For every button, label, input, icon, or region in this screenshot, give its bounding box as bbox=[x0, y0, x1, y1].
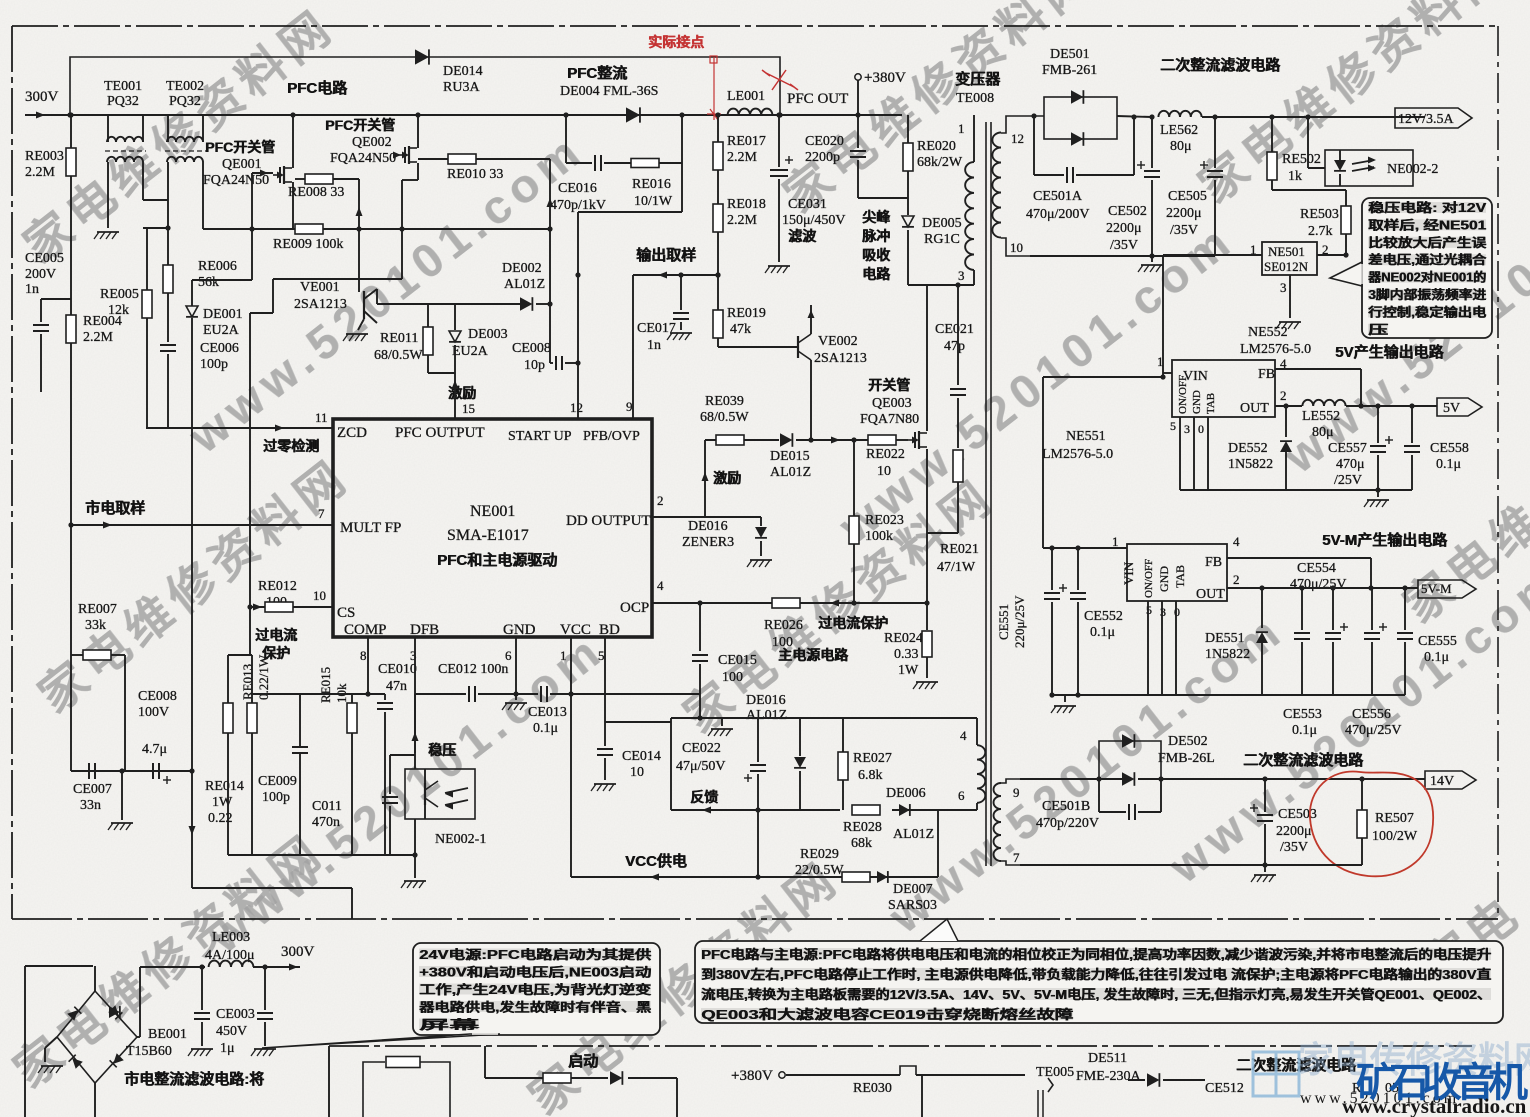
svg-text:470μ/25V: 470μ/25V bbox=[1290, 577, 1347, 592]
svg-text:工作,产生24V电压,为背光灯逆变: 工作,产生24V电压,为背光灯逆变 bbox=[420, 982, 653, 997]
svg-text:CE014: CE014 bbox=[622, 749, 661, 764]
svg-text:RE030: RE030 bbox=[853, 1081, 892, 1096]
svg-text:TE001: TE001 bbox=[104, 79, 142, 94]
svg-text:15: 15 bbox=[462, 401, 475, 416]
svg-text:PFC OUTPUT: PFC OUTPUT bbox=[395, 425, 485, 441]
note PFC box bbox=[695, 941, 1503, 1023]
wire HV rail to transformer bbox=[858, 114, 902, 116]
ic NE552 LM2576 box bbox=[1172, 360, 1275, 417]
svg-text:LE562: LE562 bbox=[1160, 123, 1198, 138]
svg-text:市电取样: 市电取样 bbox=[86, 499, 146, 517]
svg-text:33k: 33k bbox=[85, 618, 106, 633]
svg-text:DE005: DE005 bbox=[922, 216, 962, 231]
wire feedback bottom bbox=[671, 809, 840, 811]
svg-text:NE501: NE501 bbox=[1268, 244, 1305, 259]
wire 5V-M out bbox=[1227, 587, 1418, 589]
wire QE002 drain column bbox=[549, 159, 551, 363]
svg-text:CE022: CE022 bbox=[682, 741, 721, 756]
svg-text:CE554: CE554 bbox=[1297, 561, 1336, 576]
svg-text:4.7μ: 4.7μ bbox=[142, 742, 167, 757]
svg-text:DE003: DE003 bbox=[468, 327, 508, 342]
svg-text:CE020: CE020 bbox=[805, 134, 844, 149]
svg-text:220μ/25V: 220μ/25V bbox=[1012, 595, 1027, 648]
svg-text:RE017: RE017 bbox=[727, 134, 766, 149]
svg-text:FMB-26L: FMB-26L bbox=[1158, 751, 1215, 766]
svg-text:RE503: RE503 bbox=[1300, 207, 1339, 222]
wire snubber mid bbox=[858, 197, 908, 199]
svg-text:LE552: LE552 bbox=[1302, 409, 1340, 424]
output 5V-M arrow bbox=[1418, 580, 1476, 598]
transformer TE005 symbol bbox=[1048, 1078, 1053, 1092]
svg-text:CE502: CE502 bbox=[1108, 204, 1147, 219]
svg-text:DE014: DE014 bbox=[443, 64, 483, 79]
svg-text:RE022: RE022 bbox=[866, 447, 905, 462]
svg-text:DE004 FML-36S: DE004 FML-36S bbox=[560, 84, 658, 99]
svg-text:SARS03: SARS03 bbox=[888, 898, 937, 913]
svg-text:CE005: CE005 bbox=[25, 251, 64, 266]
svg-text:PFC和主电源驱动: PFC和主电源驱动 bbox=[438, 551, 558, 569]
wire pin12 run bbox=[578, 211, 682, 213]
svg-text:NE002-2: NE002-2 bbox=[1387, 162, 1438, 177]
svg-text:稳压电路: 对12V: 稳压电路: 对12V bbox=[1369, 200, 1488, 215]
svg-text:68/0.5W: 68/0.5W bbox=[700, 410, 749, 425]
svg-text:0: 0 bbox=[1198, 422, 1204, 436]
wire VCC supply run bbox=[191, 318, 193, 888]
svg-text:GND: GND bbox=[1157, 566, 1171, 592]
svg-text:/35V: /35V bbox=[1110, 238, 1138, 253]
svg-text:开关管: 开关管 bbox=[869, 377, 911, 393]
svg-text:RE019: RE019 bbox=[727, 306, 766, 321]
svg-text:TAB: TAB bbox=[1205, 393, 1217, 414]
svg-text:QE003和大滤波电容CE019击穿烧断熔丝故障: QE003和大滤波电容CE019击穿烧断熔丝故障 bbox=[702, 1007, 1074, 1022]
svg-text:RE010 33: RE010 33 bbox=[447, 167, 503, 182]
svg-text:启动: 启动 bbox=[569, 1052, 599, 1070]
svg-text:1μ: 1μ bbox=[220, 1041, 235, 1056]
svg-text:AL01Z: AL01Z bbox=[770, 465, 811, 480]
svg-text:100V: 100V bbox=[138, 705, 169, 720]
svg-text:9: 9 bbox=[626, 399, 633, 414]
svg-text:屏幕: 屏幕 bbox=[417, 1017, 481, 1032]
diode DE502a bbox=[1122, 734, 1134, 748]
svg-text:到380V左右,PFC电路停止工作时, 主电源供电降低,带负: 到380V左右,PFC电路停止工作时, 主电源供电降低,带负载能力降低,往往引发… bbox=[702, 967, 1492, 982]
svg-text:1: 1 bbox=[958, 121, 965, 136]
svg-text:8: 8 bbox=[360, 648, 367, 663]
svg-text:80μ: 80μ bbox=[1312, 425, 1334, 440]
svg-text:CE556: CE556 bbox=[1352, 707, 1391, 722]
svg-text:www.crystalradio.cn: www.crystalradio.cn bbox=[1342, 1094, 1527, 1117]
svg-text:DE016: DE016 bbox=[688, 519, 728, 534]
svg-text:300V: 300V bbox=[281, 944, 315, 960]
ground CE014 bbox=[594, 783, 616, 785]
svg-text:DE501: DE501 bbox=[1050, 47, 1090, 62]
svg-text:RE018: RE018 bbox=[727, 197, 766, 212]
svg-text:市电整流滤波电路:将: 市电整流滤波电路:将 bbox=[125, 1070, 265, 1088]
svg-text:47p: 47p bbox=[944, 339, 965, 354]
svg-text:SMA-E1017: SMA-E1017 bbox=[447, 527, 529, 544]
svg-text:5V: 5V bbox=[1443, 401, 1460, 416]
svg-text:12V/3.5A: 12V/3.5A bbox=[1398, 112, 1455, 127]
svg-text:脉冲: 脉冲 bbox=[862, 228, 891, 244]
wire RE502 to RE503 bbox=[1272, 189, 1346, 191]
svg-text:LM2576-5.0: LM2576-5.0 bbox=[1240, 342, 1311, 357]
svg-text:CE007: CE007 bbox=[73, 782, 112, 797]
svg-text:CE006: CE006 bbox=[200, 341, 239, 356]
svg-text:47/1W: 47/1W bbox=[937, 560, 976, 575]
capacitor CE003b bbox=[264, 967, 266, 1010]
svg-text:1: 1 bbox=[1112, 534, 1119, 549]
wire drive to pin15 bbox=[454, 373, 456, 375]
svg-text:470n: 470n bbox=[312, 815, 340, 830]
svg-text:47k: 47k bbox=[730, 322, 751, 337]
svg-text:0.1μ: 0.1μ bbox=[1292, 723, 1317, 738]
svg-text:ON/OFF: ON/OFF bbox=[1143, 559, 1155, 598]
wire comp bottom rail bbox=[228, 854, 415, 856]
capacitor CE553a bbox=[1301, 588, 1303, 630]
svg-text:DE002: DE002 bbox=[502, 261, 542, 276]
wire NE501 pin1 to regulators bbox=[1163, 254, 1262, 256]
svg-text:LE001: LE001 bbox=[727, 89, 765, 104]
svg-text:RE005: RE005 bbox=[100, 287, 139, 302]
svg-text:器NE002对NE001的: 器NE002对NE001的 bbox=[1368, 270, 1487, 285]
svg-text:CE009: CE009 bbox=[258, 774, 297, 789]
svg-text:470μ/25V: 470μ/25V bbox=[1345, 723, 1402, 738]
svg-text:TAB: TAB bbox=[1173, 565, 1187, 588]
svg-text:实际接点: 实际接点 bbox=[649, 34, 705, 50]
bridge rectifier BE001 bbox=[57, 991, 137, 1083]
svg-text:RE024: RE024 bbox=[884, 631, 923, 646]
wire VIN feed 5V-M bbox=[1043, 376, 1163, 378]
svg-text:5V-M产生输出电路: 5V-M产生输出电路 bbox=[1323, 531, 1449, 549]
svg-text:56k: 56k bbox=[198, 275, 219, 290]
svg-text:二次整流滤波电路: 二次整流滤波电路 bbox=[1161, 56, 1282, 74]
svg-text:反馈: 反馈 bbox=[691, 789, 719, 805]
svg-text:1: 1 bbox=[560, 648, 567, 663]
svg-text:SE012N: SE012N bbox=[1264, 259, 1309, 274]
svg-text:470μ/200V: 470μ/200V bbox=[1026, 207, 1090, 222]
svg-text:CE016: CE016 bbox=[558, 181, 597, 196]
svg-text:6: 6 bbox=[958, 788, 965, 803]
svg-text:CE008: CE008 bbox=[138, 689, 177, 704]
svg-text:3: 3 bbox=[1280, 280, 1287, 295]
ic NE553 LM2576 box 5V-M bbox=[1127, 544, 1227, 601]
note 24V box bbox=[413, 943, 660, 1035]
svg-text:PQ32: PQ32 bbox=[169, 94, 201, 109]
svg-text:CE512: CE512 bbox=[1205, 1081, 1244, 1096]
logo watermark book bbox=[1253, 1052, 1299, 1096]
transformer feedback winding bbox=[976, 718, 978, 745]
svg-text:10: 10 bbox=[630, 765, 644, 780]
svg-text:RE021: RE021 bbox=[940, 542, 979, 557]
svg-text:激励: 激励 bbox=[714, 470, 742, 486]
wire NE552 FB loop bbox=[1275, 368, 1361, 370]
wire RE008 column to VE001 bbox=[358, 179, 360, 292]
svg-text:器电路供电,发生故障时有伴音、黑: 器电路供电,发生故障时有伴音、黑 bbox=[418, 1000, 652, 1015]
svg-text:47n: 47n bbox=[386, 679, 407, 694]
svg-text:1W: 1W bbox=[898, 663, 919, 678]
ground VE001 bbox=[358, 319, 364, 330]
svg-text:DE015: DE015 bbox=[770, 449, 810, 464]
svg-text:吸收: 吸收 bbox=[863, 247, 892, 263]
diode DE511 bbox=[1128, 1079, 1145, 1081]
svg-text:FMB-261: FMB-261 bbox=[1042, 63, 1097, 78]
svg-text:RE014: RE014 bbox=[205, 779, 244, 794]
svg-text:RE507: RE507 bbox=[1375, 811, 1414, 826]
wire top loop to DE014 bbox=[70, 57, 780, 115]
resistor startup bbox=[543, 1073, 571, 1083]
svg-text:200V: 200V bbox=[25, 267, 56, 282]
svg-text:RE020: RE020 bbox=[917, 139, 956, 154]
svg-text:10k: 10k bbox=[334, 683, 349, 703]
bridge diodes bbox=[764, 266, 766, 268]
red cross mark bbox=[766, 73, 794, 87]
svg-text:10: 10 bbox=[313, 588, 326, 603]
svg-text:CE551: CE551 bbox=[996, 604, 1011, 640]
svg-text:PQ32: PQ32 bbox=[107, 94, 139, 109]
ground bridge bbox=[45, 1037, 57, 1048]
transformer TE008 secondary winding 12-10 bbox=[992, 133, 1001, 238]
wire startup row bbox=[484, 1046, 486, 1078]
svg-text:RE007: RE007 bbox=[78, 602, 117, 617]
wire snubber bottom bbox=[908, 284, 974, 286]
svg-text:2.7k: 2.7k bbox=[1308, 224, 1333, 239]
svg-text:9: 9 bbox=[1013, 785, 1020, 800]
svg-text:CE558: CE558 bbox=[1430, 441, 1469, 456]
ground 12V rail bbox=[1151, 255, 1153, 262]
red circle annotation RE507 bbox=[1310, 772, 1433, 877]
output 5V arrow bbox=[1437, 398, 1482, 416]
wire bottom verticals bbox=[921, 1075, 923, 1117]
svg-text:100p: 100p bbox=[200, 357, 228, 372]
svg-text:/25V: /25V bbox=[1334, 473, 1362, 488]
svg-text:470p/1kV: 470p/1kV bbox=[550, 198, 606, 213]
svg-text:12: 12 bbox=[1011, 131, 1024, 146]
svg-text:3: 3 bbox=[1184, 422, 1190, 436]
svg-text:CE503: CE503 bbox=[1278, 807, 1317, 822]
svg-text:CE557: CE557 bbox=[1328, 441, 1367, 456]
svg-text:取样后, 经NE501: 取样后, 经NE501 bbox=[1369, 217, 1487, 232]
svg-text:BD: BD bbox=[599, 622, 620, 638]
svg-text:COMP: COMP bbox=[344, 622, 387, 638]
diode DE014 bbox=[415, 49, 429, 64]
wire vcc supply row bbox=[571, 876, 938, 878]
ground CE031 bbox=[768, 265, 790, 267]
svg-text:1W: 1W bbox=[212, 795, 233, 810]
diode DE016b bbox=[799, 718, 801, 756]
svg-text:DE502: DE502 bbox=[1168, 734, 1208, 749]
border frame bbox=[12, 25, 1498, 27]
wire bridge output bbox=[137, 1036, 140, 1038]
svg-text:电路: 电路 bbox=[863, 266, 892, 282]
svg-text:12k: 12k bbox=[108, 303, 129, 318]
svg-text:4: 4 bbox=[657, 578, 664, 593]
svg-text:行控制,稳定输出电: 行控制,稳定输出电 bbox=[1367, 304, 1487, 319]
svg-text:OUT: OUT bbox=[1196, 587, 1225, 602]
svg-text:1N5822: 1N5822 bbox=[1205, 647, 1250, 662]
svg-text:2200μ: 2200μ bbox=[1276, 824, 1312, 839]
diode DE501b bbox=[1071, 132, 1083, 146]
svg-text:CE015: CE015 bbox=[718, 653, 757, 668]
svg-text:7: 7 bbox=[1013, 850, 1020, 865]
svg-text:RE003: RE003 bbox=[25, 149, 64, 164]
svg-text:START UP: START UP bbox=[508, 429, 572, 444]
svg-text:3: 3 bbox=[1160, 605, 1166, 619]
svg-text:33n: 33n bbox=[80, 798, 101, 813]
svg-text:RE027: RE027 bbox=[853, 751, 892, 766]
svg-text:RE029: RE029 bbox=[800, 847, 839, 862]
svg-text:PFC开关管: PFC开关管 bbox=[326, 117, 396, 133]
svg-text:QE003: QE003 bbox=[872, 396, 912, 411]
svg-text:12: 12 bbox=[570, 400, 583, 415]
svg-text:FQA24N50: FQA24N50 bbox=[330, 151, 396, 166]
svg-text:QE002: QE002 bbox=[352, 135, 392, 150]
svg-text:1N5822: 1N5822 bbox=[1228, 457, 1273, 472]
svg-text:RE012: RE012 bbox=[258, 579, 297, 594]
transformer TE008 core bbox=[985, 122, 987, 866]
output 14V arrow bbox=[1425, 771, 1476, 789]
ground 14V bbox=[1264, 865, 1266, 872]
svg-text:/35V: /35V bbox=[1170, 223, 1198, 238]
ground 5V-M rail bbox=[1064, 695, 1066, 702]
svg-text:RG1C: RG1C bbox=[924, 232, 960, 247]
svg-text:NE552: NE552 bbox=[1248, 325, 1288, 340]
svg-text:GND: GND bbox=[1191, 390, 1203, 414]
svg-text:RE009 100k: RE009 100k bbox=[273, 237, 343, 252]
svg-text:0: 0 bbox=[1174, 605, 1180, 619]
svg-text:450V: 450V bbox=[216, 1024, 247, 1039]
svg-text:DE006: DE006 bbox=[886, 786, 926, 801]
svg-text:TE008: TE008 bbox=[956, 91, 994, 106]
wire QE001 gate column bbox=[251, 173, 253, 280]
mosfet QE001 bbox=[292, 115, 294, 158]
svg-text:VCC供电: VCC供电 bbox=[626, 852, 688, 870]
svg-text:4: 4 bbox=[1233, 534, 1240, 549]
capacitor CE556a bbox=[1332, 588, 1334, 630]
svg-text:CE555: CE555 bbox=[1418, 634, 1457, 649]
ground feedback top bbox=[721, 718, 723, 726]
svg-text:0.1μ: 0.1μ bbox=[533, 721, 558, 736]
optocoupler NE002-2 bbox=[1325, 150, 1413, 186]
svg-text:100/2W: 100/2W bbox=[1372, 829, 1418, 844]
svg-text:RU3A: RU3A bbox=[443, 80, 480, 95]
svg-text:RE015: RE015 bbox=[318, 667, 333, 703]
svg-text:FME-230A: FME-230A bbox=[1076, 1069, 1141, 1084]
svg-text:2.2M: 2.2M bbox=[727, 150, 758, 165]
svg-text:CE003: CE003 bbox=[216, 1007, 255, 1022]
svg-text:VE002: VE002 bbox=[818, 334, 858, 349]
svg-text:尖峰: 尖峰 bbox=[863, 209, 892, 225]
svg-text:/35V: /35V bbox=[1280, 840, 1308, 855]
svg-text:PFC OUT: PFC OUT bbox=[787, 91, 848, 107]
svg-text:CE010: CE010 bbox=[378, 662, 417, 677]
wire 5V-M FB loop bbox=[1227, 557, 1371, 559]
svg-text:流电压,转换为主电路板需要的12V/3.5A、14V、5V、: 流电压,转换为主电路板需要的12V/3.5A、14V、5V、5V-M电压, 发生… bbox=[702, 987, 1492, 1002]
svg-text:稳压: 稳压 bbox=[429, 742, 457, 758]
svg-text:5V产生输出电路: 5V产生输出电路 bbox=[1336, 343, 1445, 361]
svg-text:2200μ: 2200μ bbox=[1166, 206, 1202, 221]
mosfet QE002 bbox=[417, 115, 419, 138]
svg-text:2.2M: 2.2M bbox=[727, 213, 758, 228]
svg-text:VIN: VIN bbox=[1121, 561, 1136, 585]
svg-text:3脚内部振荡频率进: 3脚内部振荡频率进 bbox=[1369, 287, 1488, 302]
diode DE501 pair box bbox=[1044, 97, 1117, 139]
svg-text:RE008 33: RE008 33 bbox=[288, 185, 344, 200]
svg-text:LM2576-5.0: LM2576-5.0 bbox=[1042, 447, 1113, 462]
svg-text:PFB/OVP: PFB/OVP bbox=[583, 429, 640, 444]
wire 300V bus bbox=[25, 114, 858, 116]
svg-text:VE001: VE001 bbox=[300, 280, 340, 295]
wire 14V gnd rail bbox=[1020, 864, 1362, 866]
svg-text:RE028: RE028 bbox=[843, 820, 882, 835]
svg-text:24V电源:PFC电路启动为其提供: 24V电源:PFC电路启动为其提供 bbox=[420, 947, 653, 962]
svg-text:0.1μ: 0.1μ bbox=[1090, 625, 1115, 640]
svg-text:1n: 1n bbox=[647, 338, 661, 353]
wire NE552 VIN bbox=[1163, 372, 1172, 374]
svg-text:470p/220V: 470p/220V bbox=[1036, 816, 1099, 831]
svg-text:150μ/450V: 150μ/450V bbox=[782, 213, 846, 228]
svg-text:AL01Z: AL01Z bbox=[893, 827, 934, 842]
svg-text:22/0.5W: 22/0.5W bbox=[795, 863, 844, 878]
svg-text:过电流保护: 过电流保护 bbox=[819, 615, 889, 631]
svg-text:RE006: RE006 bbox=[198, 259, 237, 274]
svg-text:2: 2 bbox=[1280, 388, 1287, 403]
svg-text:PFC开关管: PFC开关管 bbox=[206, 139, 276, 155]
ground GND pin bbox=[515, 694, 517, 700]
svg-text:68k: 68k bbox=[851, 836, 872, 851]
svg-text:+380V: +380V bbox=[864, 70, 906, 86]
svg-text:100: 100 bbox=[722, 670, 743, 685]
svg-text:PFC整流: PFC整流 bbox=[568, 64, 628, 82]
svg-text:0.1μ: 0.1μ bbox=[1436, 457, 1461, 472]
svg-text:2.2M: 2.2M bbox=[83, 330, 114, 345]
svg-text:CE553: CE553 bbox=[1283, 707, 1322, 722]
svg-text:100k: 100k bbox=[865, 529, 893, 544]
svg-text:DE511: DE511 bbox=[1088, 1051, 1127, 1066]
svg-text:NE002-1: NE002-1 bbox=[435, 832, 486, 847]
svg-text:DD OUTPUT: DD OUTPUT bbox=[566, 513, 651, 529]
svg-text:DE016: DE016 bbox=[746, 693, 786, 708]
resistor RE-bottom bbox=[386, 1057, 420, 1068]
wire 14V rail bbox=[1020, 778, 1099, 780]
svg-text:EU2A: EU2A bbox=[203, 323, 240, 338]
svg-text:2: 2 bbox=[657, 493, 664, 508]
svg-text:VCC: VCC bbox=[560, 622, 591, 638]
svg-text:10: 10 bbox=[1010, 240, 1023, 255]
svg-text:FB: FB bbox=[1205, 555, 1222, 570]
svg-text:变压器: 变压器 bbox=[956, 70, 1002, 88]
svg-text:RE026: RE026 bbox=[764, 618, 803, 633]
svg-text:1n: 1n bbox=[25, 282, 39, 297]
ground CE017 bbox=[670, 332, 692, 334]
wire 12V rail bbox=[1117, 116, 1152, 117]
wire snubber bbox=[565, 115, 567, 163]
output 12V/3.5A bbox=[1395, 108, 1472, 128]
wire 5V out bbox=[1275, 405, 1302, 407]
ground NE002-1 bbox=[414, 819, 416, 878]
svg-text:FB: FB bbox=[1258, 367, 1275, 382]
svg-text:AL01Z: AL01Z bbox=[746, 708, 787, 723]
svg-text:差电压,通过光耦合: 差电压,通过光耦合 bbox=[1367, 252, 1487, 267]
svg-text:0.1μ: 0.1μ bbox=[1424, 650, 1449, 665]
mosfet QE003 bbox=[908, 439, 915, 441]
wire NE501 pin3 bbox=[1289, 275, 1291, 310]
op-amp U1 NE001 main IC box bbox=[333, 419, 652, 637]
svg-text:300V: 300V bbox=[25, 89, 59, 105]
diode DE501a bbox=[1071, 90, 1083, 104]
svg-text:2: 2 bbox=[1233, 572, 1240, 587]
ground CE007 bbox=[121, 771, 123, 820]
wire output sampling bbox=[633, 274, 718, 276]
svg-text:GND: GND bbox=[503, 622, 536, 638]
